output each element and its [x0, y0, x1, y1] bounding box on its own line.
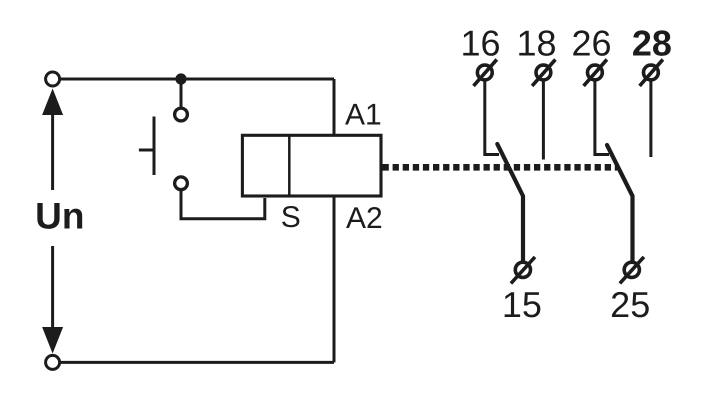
svg-text:25: 25: [610, 284, 650, 325]
Un arrow upper shaft: [51, 113, 54, 190]
wire up to coil A2: [333, 196, 336, 362]
svg-text:28: 28: [632, 23, 672, 64]
terminal 25 slash: [620, 257, 644, 284]
pushbutton S actuator bar: [153, 117, 156, 176]
terminal 15 circle: [515, 262, 530, 277]
contact 1 moving arm: [497, 144, 523, 262]
Un arrow lower shaft: [51, 246, 54, 329]
Un arrow upper head: [42, 89, 63, 116]
terminal 18 slash: [532, 60, 555, 86]
relay coil divider: [288, 135, 291, 196]
node junction dot: [175, 73, 186, 84]
contact 2 fixed terminal 28 lead: [649, 80, 652, 157]
pushbutton S actuator tick: [139, 149, 154, 152]
node Un- terminal circle: [46, 355, 60, 369]
Un arrow lower head: [42, 327, 63, 354]
svg-text:A1: A1: [345, 99, 382, 132]
terminal 28 slash: [640, 60, 663, 86]
svg-text:S: S: [281, 201, 301, 234]
pushbutton S top terminal circle: [175, 108, 188, 121]
contact 1 fixed terminal 18 lead: [542, 80, 545, 160]
pushbutton S bottom terminal circle: [175, 177, 188, 190]
mechanical link dashed: [383, 164, 618, 171]
svg-text:15: 15: [502, 284, 542, 325]
terminal 26 circle: [588, 65, 603, 80]
wire down to coil A1: [333, 79, 336, 136]
terminal 15 slash: [511, 257, 535, 284]
wire bottom horizontal: [53, 361, 334, 364]
contact 2 fixed terminal 26 lead: [595, 80, 609, 155]
contact 2 moving arm: [607, 145, 633, 262]
terminal 26 slash: [584, 60, 607, 86]
terminal 16 slash: [474, 60, 497, 86]
svg-text:Un: Un: [35, 196, 84, 237]
terminal 28 circle: [644, 65, 659, 80]
contact 1 fixed terminal 16 lead: [485, 80, 499, 155]
terminal 18 circle: [536, 65, 551, 80]
relay coil K1 box: [242, 135, 381, 196]
terminal 25 circle: [624, 262, 639, 277]
svg-text:18: 18: [516, 23, 556, 64]
svg-text:16: 16: [460, 23, 500, 64]
svg-text:A2: A2: [346, 202, 383, 235]
wire from S to coil: [181, 189, 265, 219]
node Un+ terminal circle: [46, 72, 60, 86]
terminal 16 circle: [477, 65, 492, 80]
svg-text:26: 26: [571, 23, 611, 64]
wire stem junction to button terminal: [180, 79, 183, 110]
wire top horizontal from Un+ to A1 corner: [53, 78, 334, 81]
